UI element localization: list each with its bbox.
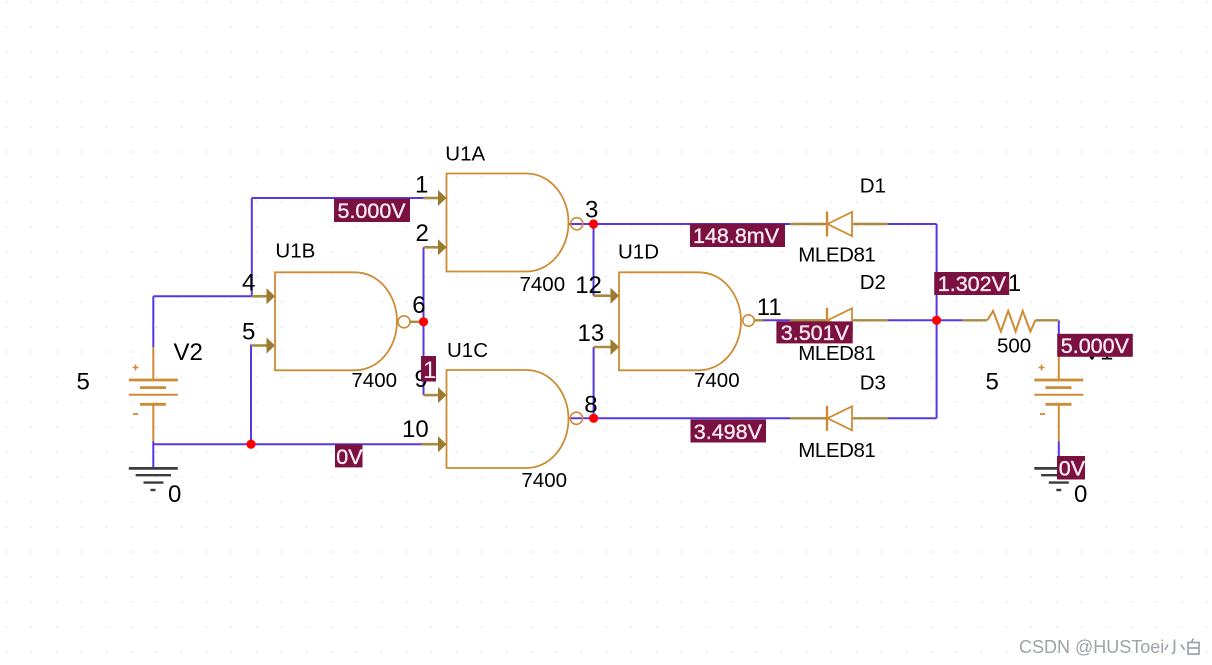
probe 5.000V net5V (334, 199, 410, 224)
U1D output bubble (743, 315, 754, 326)
U1B output stub to junction (410, 321, 421, 323)
svg-text:5.000V: 5.000V (1061, 334, 1130, 358)
wire net8 vertical to U1D pin13 (593, 347, 595, 418)
svg-text:5: 5 (986, 369, 999, 396)
svg-text:V2: V2 (174, 339, 203, 366)
svg-text:7400: 7400 (694, 369, 740, 392)
watermark CSDN (1019, 637, 1199, 657)
wire net0V V2- to ground (152, 441, 154, 467)
NAND gate U1C body (447, 370, 569, 468)
wire net8 U1C out to D3 (594, 417, 790, 419)
svg-text:0V: 0V (336, 445, 363, 469)
wire net5V V2+ vertical (152, 296, 154, 347)
svg-text:D1: D1 (860, 174, 886, 197)
net number 1 box (421, 356, 436, 384)
U1A pin1 stub and arrow (424, 190, 447, 206)
wire net3 U1A out to D1 (594, 223, 791, 225)
U1C output bubble (570, 412, 582, 424)
wire right bus vertical D1-D3 (936, 224, 938, 418)
probe 0V right (1057, 456, 1086, 481)
svg-text:1.302V: 1.302V (938, 272, 1007, 296)
svg-text:5.000V: 5.000V (338, 199, 407, 223)
svg-text:0: 0 (1074, 481, 1087, 508)
U1B output bubble (398, 316, 410, 328)
svg-text:7400: 7400 (521, 469, 567, 492)
svg-text:D3: D3 (860, 372, 886, 395)
svg-text:0: 0 (168, 481, 181, 508)
wire bus to R1 (937, 319, 963, 321)
svg-text:D2: D2 (860, 271, 886, 294)
svg-text:6: 6 (412, 292, 425, 319)
svg-text:500: 500 (997, 334, 1031, 357)
svg-text:3.498V: 3.498V (694, 420, 763, 444)
U1C pin10 stub and arrow (422, 436, 447, 452)
NAND gate U1B body (275, 272, 397, 370)
svg-text:1: 1 (423, 357, 436, 384)
svg-text:2: 2 (416, 220, 429, 247)
wire net0V rail to U1C pin10 (153, 443, 421, 445)
junction node net3 (589, 219, 598, 228)
wire net0V vertical to U1B pin5 (251, 346, 267, 445)
resistor R1 (963, 311, 1059, 332)
junction node net1 (419, 317, 428, 326)
wire U1A output through bubble (569, 223, 594, 225)
NAND gate U1D body (619, 272, 741, 370)
wire R1 to V1 top (1058, 320, 1060, 342)
U1B pin5 stub and arrow (251, 338, 275, 354)
wire D1 right to bus (888, 223, 937, 225)
svg-text:U1D: U1D (618, 241, 659, 264)
svg-text:12: 12 (575, 272, 602, 299)
probe 1.302V bus (934, 272, 1009, 296)
ground 0 (right) (1034, 468, 1083, 490)
junction node net8 (589, 414, 598, 423)
probe 5.000V V1 (1057, 334, 1133, 358)
svg-text:10: 10 (402, 416, 429, 443)
wire net3 vertical to U1D pin12 (593, 224, 595, 296)
svg-text:11: 11 (757, 294, 782, 321)
svg-text:MLED81: MLED81 (798, 243, 875, 266)
svg-text:5: 5 (242, 319, 255, 346)
svg-text:U1B: U1B (275, 240, 315, 263)
U1D pin13 stub and arrow (594, 339, 619, 355)
probe 3.498V net8 (691, 420, 767, 444)
junction node bus/R1 (932, 316, 941, 325)
U1A output bubble (571, 218, 583, 230)
diode D2 (790, 308, 888, 333)
wire net1 U1B out vertical pin2 to pin9 (423, 247, 425, 395)
wire net5V horizontal to pin4 corner (153, 295, 252, 297)
svg-text:3: 3 (585, 197, 598, 224)
junction node pin5/0V rail (246, 440, 255, 449)
wire V1- to ground (1058, 441, 1060, 468)
NAND gate U1A body (447, 174, 569, 272)
wire D2 right to bus (888, 319, 937, 321)
wire net11 U1D out to D2 (762, 319, 790, 321)
diode D1 (790, 212, 888, 237)
svg-text:MLED81: MLED81 (798, 439, 875, 462)
wire net5V vertical up to pin1 level (251, 198, 253, 296)
svg-text:13: 13 (578, 320, 605, 347)
wire net5V horizontal to U1A pin1 (252, 197, 424, 199)
ground 0 (left) (129, 468, 178, 490)
U1C pin9 stub and arrow (424, 387, 447, 403)
power source V1 battery (1034, 340, 1083, 442)
svg-text:CSDN @HUSToei: CSDN @HUSToei (1019, 637, 1164, 657)
svg-text:7400: 7400 (520, 273, 566, 296)
svg-text:1: 1 (415, 171, 428, 198)
svg-text:U1A: U1A (445, 143, 485, 166)
svg-text:3.501V: 3.501V (781, 321, 850, 345)
diode D3 (790, 406, 888, 431)
U1D pin12 stub and arrow (594, 288, 620, 304)
svg-text:U1C: U1C (447, 339, 488, 362)
U1D output stub (754, 319, 763, 321)
U1B pin4 stub and arrow (252, 288, 275, 304)
svg-text:8: 8 (584, 391, 597, 418)
probe 3.501V net11 (776, 321, 852, 345)
svg-text:148.8mV: 148.8mV (693, 224, 780, 248)
power source V2 battery (129, 347, 178, 442)
probe 0V left (335, 444, 363, 468)
U1A pin2 stub and arrow (424, 239, 447, 255)
svg-text:5: 5 (77, 369, 90, 396)
svg-text:MLED81: MLED81 (798, 342, 875, 365)
wire D3 right to bus (888, 417, 937, 419)
wire U1C output through bubble (569, 417, 594, 419)
probe 148.8mV net3 (690, 224, 785, 248)
svg-text:7400: 7400 (351, 369, 397, 392)
svg-text:0V: 0V (1059, 457, 1086, 481)
svg-text:4: 4 (242, 270, 255, 297)
